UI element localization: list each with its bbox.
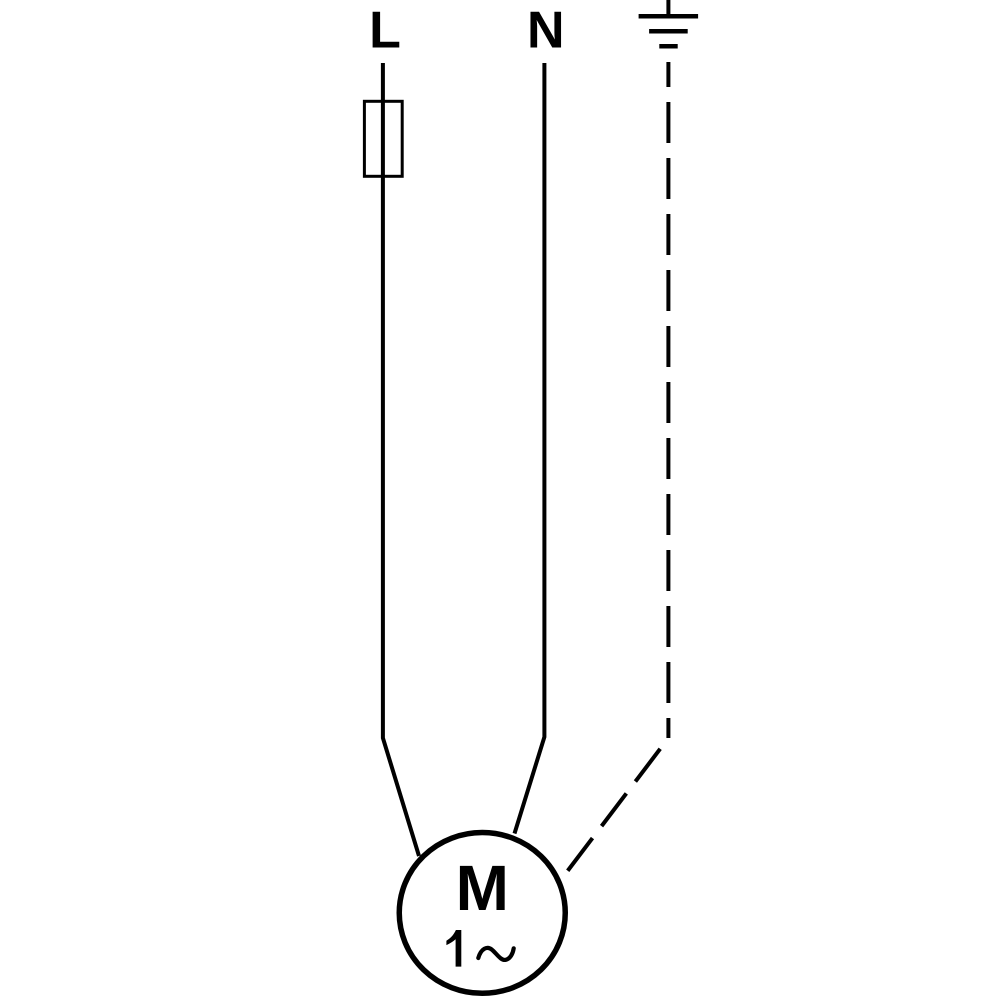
svg-text:M: M	[456, 852, 509, 924]
svg-text:L: L	[369, 2, 401, 60]
svg-text:N: N	[527, 2, 565, 60]
